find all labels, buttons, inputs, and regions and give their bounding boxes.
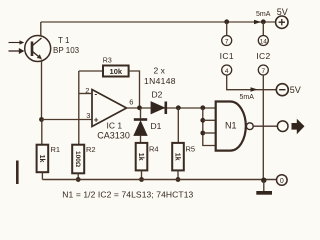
svg-text:10k: 10k [110,67,123,76]
wire R1 bottom [41,172,43,179]
supply node dot 2 [261,19,266,24]
svg-text:IC2: IC2 [256,51,270,61]
wire top rail [41,21,277,23]
svg-text:5V: 5V [290,85,301,95]
transistor T1 [25,36,51,62]
supply node dot 1 [224,19,229,24]
output terminal [277,121,288,132]
diode D2 [151,102,166,115]
wire IC2 pin7 to ground [262,75,264,180]
wire R1 drop [41,120,43,145]
wire pin3 horizontal [42,119,93,121]
svg-text:CA3130: CA3130 [97,131,130,141]
nand gate N1 [216,102,246,151]
svg-text:+: + [94,116,99,125]
wire gate input bus [203,108,216,146]
wire op-amp output [127,107,216,109]
wire R5 bottom [177,170,179,179]
svg-text:2 x: 2 x [154,66,166,76]
node gate bus top [200,105,205,110]
node R4 rail [139,177,144,182]
svg-text:IC 1: IC 1 [107,121,123,131]
node output/D1/R3 [137,105,142,110]
wire ground rail [42,179,276,181]
wire collector drop [40,22,42,36]
svg-text:1k: 1k [137,153,144,161]
ground symbol [256,180,272,195]
wire feedback left vertical [78,71,80,145]
wire pin2 stub [79,93,92,95]
svg-text:5V: 5V [277,7,288,17]
pin circle 7 IC1 [222,36,232,46]
node ground [261,178,266,183]
svg-text:6: 6 [129,97,133,106]
wire R4 bottom [141,170,143,179]
pin circle 14 IC2 [258,36,268,46]
svg-text:100Ω: 100Ω [74,151,81,167]
node D2/R5 [176,105,181,110]
wire N1 output [253,125,277,127]
node junction T1/R1/pin3 [39,117,44,122]
wire R2 bottom [77,173,79,179]
output arrow [292,119,305,135]
light arrow 1 [9,41,24,45]
svg-text:N1 = 1/2 IC2 = 74LS13; 74HCT13: N1 = 1/2 IC2 = 74LS13; 74HCT13 [62,190,193,200]
wire to IC2 pin14 [262,22,264,36]
svg-text:R1: R1 [51,145,61,154]
diode D1 [134,108,147,143]
scan artifact left margin [16,161,19,185]
arrow 5mA mid [251,87,258,92]
wire emitter drop to node [41,60,43,120]
wire input stub 2 [203,119,216,121]
light arrow 2 [9,48,25,53]
node bus mid2 [200,131,205,136]
resistor R1 [37,145,49,173]
resistor R2 [72,145,84,174]
svg-text:5mA: 5mA [256,11,271,18]
resistor R4 [136,143,148,171]
svg-text:D2: D2 [152,90,163,100]
pin circle 4 IC1 [222,65,232,75]
arrow 5mA top [254,20,261,25]
svg-text:BP 103: BP 103 [53,46,80,55]
resistor R3 [103,66,129,77]
svg-text:R3: R3 [103,57,112,64]
wire IC1 pin4 to -5V [227,75,277,90]
wire R5 drop [177,108,179,143]
wire to IC1 pin7 [226,22,228,36]
svg-text:R5: R5 [186,145,196,154]
svg-text:R4: R4 [149,145,159,154]
node R5 rail [176,177,181,182]
svg-text:5mA: 5mA [240,94,255,101]
node bus mid1 [200,118,205,123]
svg-text:7: 7 [225,38,229,45]
svg-text:7: 7 [261,68,265,75]
wire R3 left [79,70,103,72]
svg-text:R2: R2 [86,145,96,154]
svg-text:1k: 1k [38,155,45,163]
inverter bubble [246,123,253,130]
minus terminal 5V [276,84,288,96]
node R2 rail [76,177,81,182]
wire R3 right [129,71,140,108]
plus terminal 5V [276,16,288,28]
svg-text:4: 4 [225,68,229,75]
svg-text:14: 14 [260,38,268,45]
resistor R5 [172,143,184,171]
svg-text:1N4148: 1N4148 [144,76,176,86]
svg-text:IC1: IC1 [220,51,234,61]
op-amp IC1 [92,90,127,127]
zero terminal [277,175,288,186]
svg-text:T 1: T 1 [58,36,70,45]
wire input stub 3 [203,132,216,134]
svg-text:-: - [95,90,98,99]
svg-text:N1: N1 [225,121,237,131]
pin circle 7 IC2 [258,65,268,75]
svg-text:0: 0 [280,178,284,185]
svg-text:3: 3 [86,111,90,120]
svg-text:D1: D1 [151,121,162,131]
svg-text:1k: 1k [174,153,181,161]
